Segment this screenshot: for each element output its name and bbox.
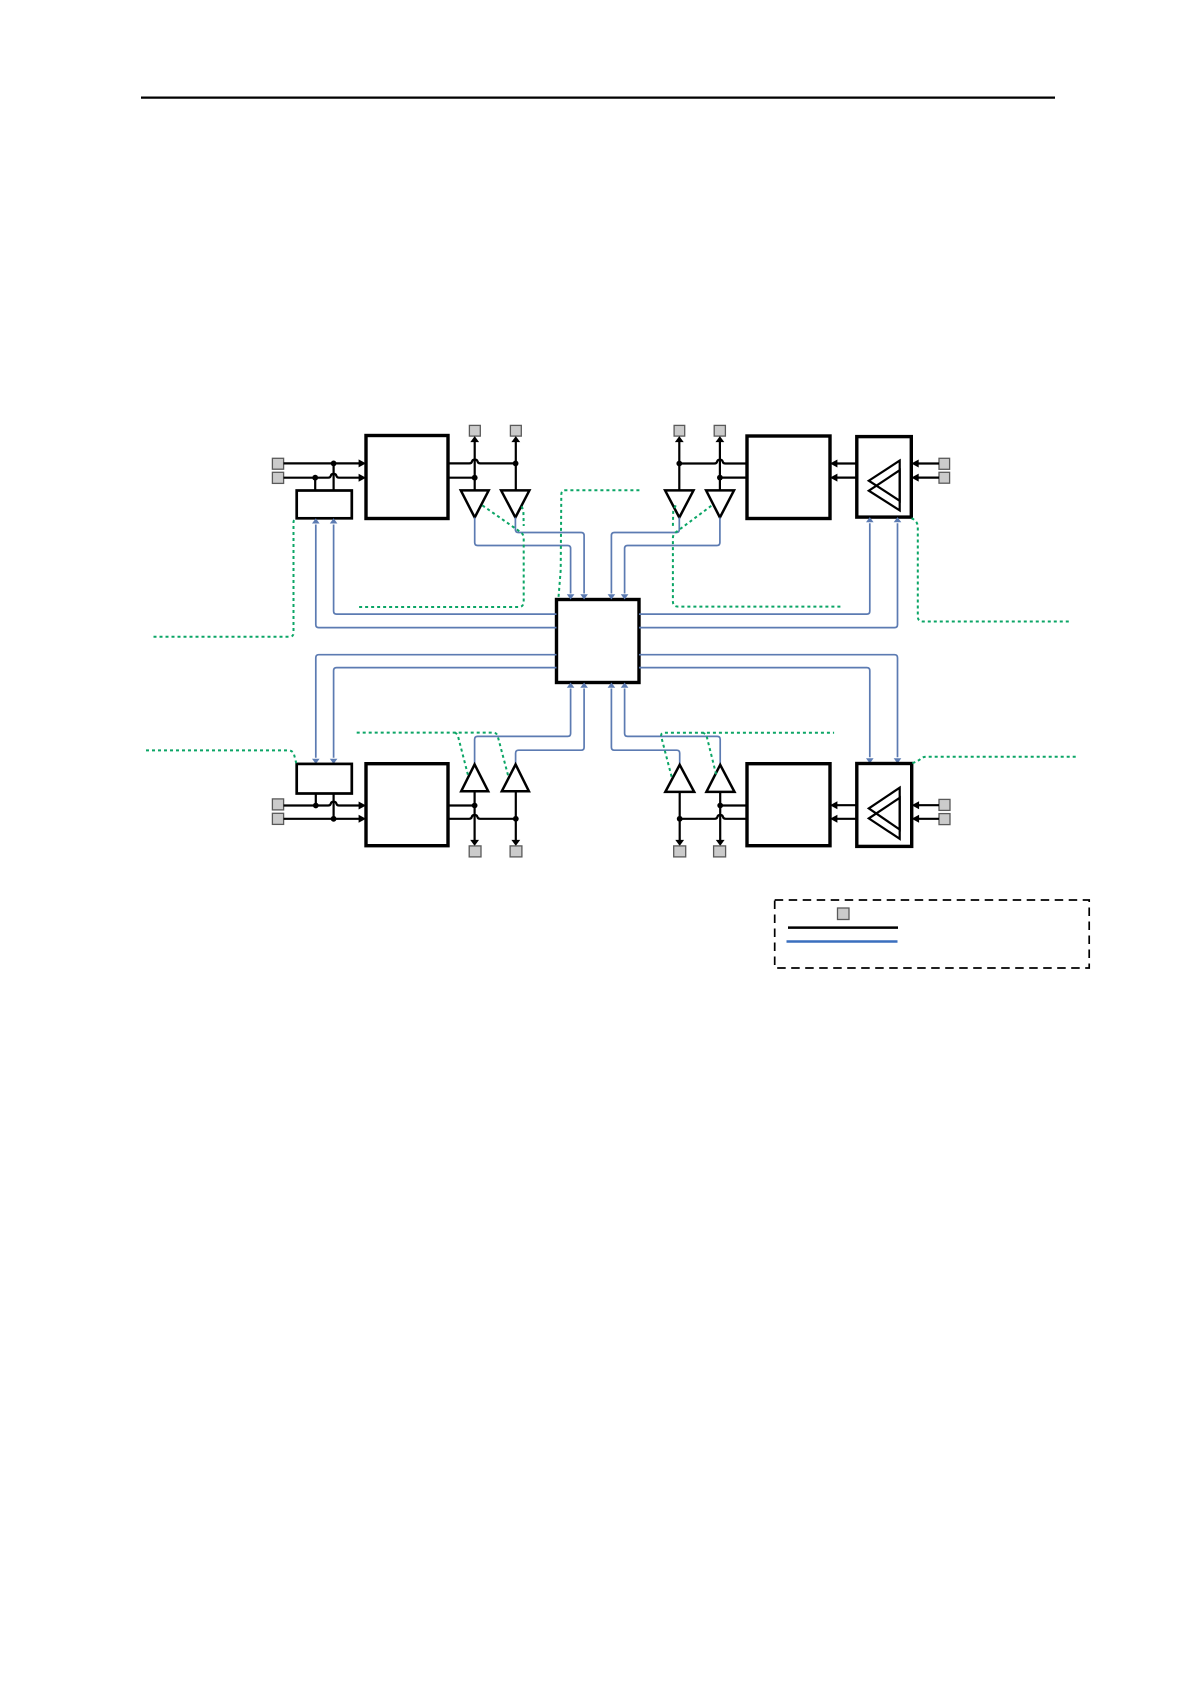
green net G5 callout to U5 [559,490,640,597]
legend black wire sample [788,926,898,929]
blue net U5 to X1 a [639,517,874,614]
node dot N5 [676,461,682,467]
wire P7 to X1 [911,460,939,468]
green net G7 callout to B6 [357,733,509,777]
block U7 bottom-right MCU [747,764,830,846]
wire vertical to P6 [716,436,725,490]
block X1 top-right transceiver [857,437,912,517]
block U2 top-left regulator [297,491,352,519]
wire P9 to U6 with hop [284,802,366,810]
pad P12 [510,846,522,857]
X2 receiver triangle a [869,788,900,830]
wire B7 down to P13 [675,792,684,846]
green net G2 callout to B1 B2 [357,505,524,607]
pad P8 [939,472,950,483]
wire X1 to U3 upper [830,460,857,468]
wire B6 down to P12 [511,791,520,846]
green net G6 callout to U4 [146,750,296,763]
buffer B3 [665,490,693,517]
node dot N12 [717,803,723,809]
green net G8 spur to B8 [702,733,716,776]
blue net B5 to U5 [475,683,575,765]
green net G9 callout to X2 [912,757,1077,764]
X2 receiver triangle b [869,798,900,839]
wire U6 out upper [448,804,475,806]
wire P15 to X2 [912,801,939,809]
wire P1 to U1 [284,459,366,467]
legend pad sample [838,908,850,920]
node dot N10 [513,816,519,822]
wire N6 to U3 [720,477,747,479]
wire X2 to U7 lower [830,815,857,823]
blue net U5 to U4 b [330,668,557,764]
block U6 bottom-left MCU [366,764,448,846]
pad P6 [714,425,725,436]
block U1 top-left MCU [366,436,448,519]
buffer B1 [461,490,489,517]
node dot N2 [312,475,318,481]
wire N1 down to U2 [333,463,335,490]
pad P9 [272,799,283,810]
wire U1 out lower [448,477,475,479]
blue net B3 to U5 [608,518,680,600]
legend blue wire sample [787,940,898,943]
green net G4 callout to X1 [912,518,1072,621]
wire vertical to P4 [511,436,520,490]
blue net B6 to U5 [516,683,588,765]
pad P10 [272,813,283,824]
blue net B8 to U5 [621,683,720,765]
node dot N3 [513,461,519,467]
pad P4 [510,425,521,436]
wire P16 to X2 [912,815,939,823]
blue net U5 to U2 a [330,518,557,614]
node dot N8 [331,816,337,822]
node dot N1 [331,461,337,467]
blue net B4 to U5 [621,518,720,600]
green net G1 callout to U2 [154,519,297,637]
wire X2 to U7 upper [830,801,857,809]
node dot N9 [472,803,478,809]
blue net U5 to U2 b [312,518,557,627]
blue net B7 to U5 [608,683,680,765]
pad P1 [272,458,283,469]
X1 receiver triangle b [869,470,900,510]
legend box [775,900,1089,968]
wire N11 to U7 lower with hop [680,815,747,819]
wire vertical to P3 [470,436,479,490]
wire X1 to U3 lower [830,474,857,482]
wire B5 down to P11 [470,791,479,846]
block U3 top-right MCU [747,436,830,519]
wire N7 up to U4 [315,794,317,806]
node dot N7 [313,803,319,809]
buffer B7 [665,765,694,792]
pad P13 [674,846,686,857]
blue net U5 to U4 a [312,655,557,764]
wire N5 to U3 with hop [679,460,747,464]
wire P8 to X1 [911,474,939,482]
block X2 bottom-right transceiver [857,764,912,847]
blue net U5 to X2 a [639,655,901,764]
node dot N6 [717,475,723,481]
buffer B2 [501,490,529,517]
buffer B4 [706,490,734,517]
block U4 bottom-left regulator [297,764,352,794]
pad P3 [469,425,480,436]
wire U1 out upper with hop [448,460,516,464]
wire P2 to U1 with hop [284,474,366,482]
blue net B2 to U5 [515,518,588,600]
buffer B6 [502,764,529,791]
node dot N11 [677,816,683,822]
wire U6 out lower with hop [448,815,516,819]
wire vertical to P5 [675,436,684,490]
pad P15 [939,799,950,810]
wire N12 to U7 upper [720,804,747,806]
pad P7 [939,458,950,469]
green net G8 callout to B7 [661,733,834,777]
wire N8 up to U4 [333,794,335,819]
blue net U5 to X2 b [639,668,874,764]
node dot N4 [472,475,478,481]
pad P14 [714,846,726,857]
header rule [141,96,1055,98]
buffer B8 [706,765,734,792]
pad P11 [469,846,481,857]
green net G3 callout to B3 B4 [673,506,843,607]
pad P2 [272,472,283,483]
wire P10 to U6 [284,815,366,823]
X1 receiver triangle a [869,461,900,501]
wire B8 down to P14 [716,792,725,846]
pad P5 [674,425,685,436]
green net G7 spur to B5 [455,733,469,777]
blue net U5 to X1 b [639,517,901,628]
wire N2 down to U2 [314,478,316,491]
pad P16 [939,814,950,825]
block U5 center hub [557,600,640,683]
green net G3 spur [673,505,676,526]
blue net B1 to U5 [475,518,575,600]
buffer B5 [461,764,488,791]
green net G2 spur [522,506,524,526]
